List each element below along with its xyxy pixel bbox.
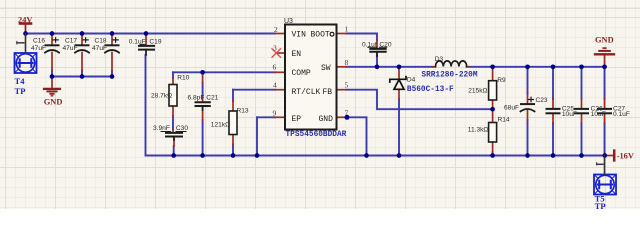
svg-text:24V: 24V — [18, 15, 32, 24]
svg-text:R14: R14 — [498, 116, 510, 123]
svg-text:47uF: 47uF — [31, 45, 46, 52]
svg-text:D3: D3 — [435, 56, 444, 63]
svg-text:28.7kΩ: 28.7kΩ — [151, 93, 172, 100]
svg-text:0.1uF: 0.1uF — [613, 111, 630, 118]
svg-text:7: 7 — [345, 108, 349, 117]
svg-text:TP: TP — [595, 201, 606, 209]
svg-text:GND: GND — [595, 35, 614, 44]
svg-text:C17: C17 — [65, 38, 77, 45]
svg-text:TP: TP — [15, 86, 26, 96]
svg-text:11.3kΩ: 11.3kΩ — [468, 127, 489, 134]
svg-text:C21: C21 — [206, 95, 218, 102]
svg-text:GND: GND — [44, 98, 63, 107]
svg-text:SRR1280-220M: SRR1280-220M — [421, 72, 477, 80]
svg-text:10uF: 10uF — [562, 111, 577, 118]
svg-text:121kΩ: 121kΩ — [211, 121, 230, 128]
svg-text:SW: SW — [321, 64, 331, 73]
svg-text:215kΩ: 215kΩ — [468, 88, 487, 95]
svg-text:47uF: 47uF — [92, 45, 107, 52]
svg-text:C30: C30 — [176, 125, 188, 132]
svg-text:U3: U3 — [284, 18, 293, 25]
svg-text:6: 6 — [273, 63, 277, 72]
svg-text:10uF: 10uF — [591, 111, 606, 118]
svg-text:FB: FB — [323, 88, 333, 97]
svg-text:COMP: COMP — [292, 69, 311, 78]
svg-text:6.8pF: 6.8pF — [188, 95, 205, 102]
svg-text:4: 4 — [273, 81, 277, 90]
svg-text:0.1uf: 0.1uf — [362, 41, 377, 48]
svg-text:0.1uF: 0.1uF — [129, 38, 146, 45]
svg-text:C20: C20 — [379, 41, 391, 48]
svg-text:-16V: -16V — [617, 152, 634, 161]
svg-text:68uF: 68uF — [504, 105, 519, 112]
svg-text:5: 5 — [345, 81, 349, 90]
svg-text:B560C-13-F: B560C-13-F — [407, 86, 454, 94]
svg-text:VIN: VIN — [292, 31, 307, 40]
svg-text:D4: D4 — [407, 76, 416, 83]
svg-text:8: 8 — [345, 58, 349, 67]
svg-text:TPS54560BDDAR: TPS54560BDDAR — [286, 131, 347, 139]
svg-text:GND: GND — [319, 115, 334, 124]
svg-text:BOOT: BOOT — [311, 31, 330, 40]
svg-text:9: 9 — [273, 108, 277, 117]
svg-text:R13: R13 — [237, 108, 249, 115]
svg-text:2: 2 — [274, 25, 278, 34]
svg-text:3: 3 — [273, 44, 277, 53]
svg-text:C16: C16 — [33, 38, 45, 45]
svg-text:R10: R10 — [177, 74, 189, 81]
svg-text:T4: T4 — [15, 76, 26, 86]
svg-text:C18: C18 — [95, 38, 107, 45]
svg-text:EN: EN — [292, 50, 302, 59]
svg-text:47uF: 47uF — [63, 45, 78, 52]
svg-text:3.9nF: 3.9nF — [153, 125, 170, 132]
svg-text:EP: EP — [292, 115, 302, 124]
svg-text:C19: C19 — [149, 38, 161, 45]
svg-text:C23: C23 — [536, 97, 548, 104]
svg-text:1: 1 — [345, 25, 349, 34]
svg-text:RT/CLK: RT/CLK — [292, 88, 321, 97]
svg-text:R9: R9 — [497, 77, 506, 84]
